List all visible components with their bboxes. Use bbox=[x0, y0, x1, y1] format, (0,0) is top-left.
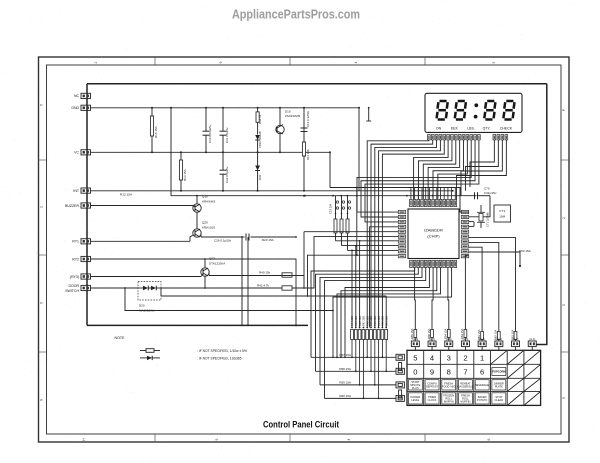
transistor Q30 bbox=[193, 195, 215, 229]
resistor R16 bbox=[150, 107, 157, 154]
diode D10a bbox=[255, 152, 262, 192]
wire RY3 line bbox=[91, 276, 202, 278]
keypad buttons row3 bbox=[408, 380, 505, 390]
wire vertical x359 bbox=[358, 108, 360, 191]
capacitor C13 / resistor R11 bbox=[301, 107, 310, 197]
transistor Q10 2SA933VM bbox=[276, 107, 301, 154]
wire vertical x356 bbox=[356, 188, 358, 256]
wire left bus bbox=[86, 84, 88, 326]
transistor Q27 bbox=[201, 257, 225, 289]
wire chip bottom fan cluster bbox=[332, 268, 452, 359]
wire INT rail bbox=[91, 190, 454, 192]
wire vertical x242 bbox=[241, 237, 243, 325]
connector (RY3) bbox=[70, 274, 91, 279]
display colon bbox=[474, 103, 478, 107]
connector DOOR SWITCH bbox=[65, 284, 90, 293]
filter XT1 bbox=[494, 205, 511, 222]
capacitor C26 line bbox=[201, 234, 297, 243]
IC U1 IZA881DR chip body bbox=[408, 209, 459, 259]
connector GND bbox=[71, 105, 90, 110]
resistor R13 bbox=[179, 151, 186, 192]
capacitor C11 bbox=[220, 107, 229, 154]
wire DOOR SWITCH line bbox=[91, 287, 139, 289]
node R60 stub bbox=[469, 249, 531, 267]
wire GND rail bbox=[91, 107, 360, 109]
display legend bbox=[436, 126, 513, 130]
wire G2 feed bbox=[469, 238, 517, 341]
resistor array C15 bbox=[329, 196, 399, 251]
capacitor C70 bbox=[469, 187, 497, 217]
IC U1 top pins bbox=[410, 187, 457, 207]
display digits 88:88 bbox=[437, 101, 515, 120]
wire BUZZER line bbox=[91, 205, 194, 207]
resistor array R44-R51 bbox=[350, 316, 388, 400]
wire door line 1 bbox=[161, 287, 304, 289]
keypad grid bbox=[407, 350, 541, 405]
keypad POPCORN bbox=[492, 368, 506, 376]
connector RY2 bbox=[72, 256, 90, 261]
wire RY1 line bbox=[91, 240, 191, 242]
scan noise bbox=[0, 0, 1, 1]
capacitor C12 bbox=[220, 152, 229, 192]
resistor R12a bbox=[256, 107, 262, 135]
wire G4 feed bbox=[469, 247, 484, 341]
wire keypad rows R57-R60 bbox=[311, 357, 396, 398]
resistor R40 bbox=[259, 271, 292, 278]
wire G5 feed bbox=[460, 255, 469, 341]
capacitor C10 bbox=[203, 107, 212, 154]
keypad unused cells bbox=[491, 350, 541, 405]
wire door line 2 bbox=[161, 295, 386, 297]
resistor R41 bbox=[257, 284, 292, 291]
note block bbox=[115, 336, 248, 360]
connectors keypad rows bbox=[396, 354, 404, 401]
connector NC bbox=[74, 93, 91, 98]
crystal CT1 bbox=[469, 205, 490, 228]
diode ZD10 bbox=[255, 131, 262, 153]
node test point bbox=[366, 107, 371, 121]
wire bus y187 bbox=[330, 188, 469, 213]
wire bottom rail bbox=[87, 324, 308, 326]
wire G8-G6 feeds bbox=[410, 268, 450, 342]
diode pair D20 MA165MA bbox=[138, 282, 161, 313]
display pins left bbox=[428, 135, 481, 140]
wire right rail to G1 bbox=[536, 84, 547, 345]
wire VC rail bbox=[91, 151, 331, 153]
wire chip left fan bbox=[303, 227, 398, 328]
IC U1 right pins bbox=[461, 211, 468, 258]
keypad buttons row4 bbox=[408, 393, 505, 404]
wire door branch bbox=[125, 288, 333, 311]
connector RY1 bbox=[72, 239, 90, 244]
wire fan display-left bbox=[357, 140, 479, 328]
wire fan display-right bbox=[457, 140, 507, 200]
wire k4 line bbox=[209, 275, 304, 277]
wire vertical x330 bbox=[329, 152, 331, 187]
connector INT bbox=[73, 188, 90, 193]
display pins right bbox=[493, 135, 508, 140]
IC U1 bottom pins bbox=[410, 260, 457, 267]
connector VC bbox=[74, 150, 90, 155]
wire vertical x248 bbox=[247, 237, 249, 325]
display module bbox=[425, 93, 522, 132]
connector BUZZER bbox=[65, 203, 91, 208]
wire RY2 line bbox=[91, 259, 297, 325]
wire G3 feed bbox=[469, 242, 500, 341]
transistor Q29 bbox=[190, 221, 215, 242]
IC U1 left pins bbox=[398, 211, 405, 258]
wire chip bottom fan rows bbox=[311, 268, 426, 399]
wire vertical x171 bbox=[170, 108, 172, 196]
border frame bbox=[39, 57, 570, 442]
connectors G1-G8 bbox=[411, 338, 536, 350]
keypad digits bbox=[413, 354, 484, 377]
wire top rail bbox=[87, 83, 547, 85]
wire bus y196 bbox=[171, 195, 477, 197]
